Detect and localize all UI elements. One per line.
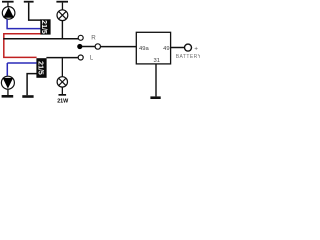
switch common pivot (filled dot) — [77, 44, 82, 49]
switch contact R (open circle) — [78, 35, 83, 40]
svg-text:R: R — [91, 34, 96, 41]
ground bar under relay — [150, 96, 160, 99]
wire stem from ground bar to L1 — [7, 3, 8, 7]
rear flasher lamp L4 (circle-X) — [57, 77, 67, 87]
svg-text:49: 49 — [163, 46, 169, 52]
battery terminal (open circle) — [185, 44, 192, 51]
svg-text:31: 31 — [154, 58, 160, 64]
flasher relay U1 — [136, 32, 170, 64]
svg-text:21/5: 21/5 — [40, 20, 47, 34]
connector terminal (open circle) — [95, 44, 100, 49]
blue wire from L1 down and right to box B1 — [6, 19, 40, 28]
wire from second ground bar down and right into top of box B1 — [29, 3, 41, 21]
wire from pivot to connector — [82, 46, 95, 48]
wire stem below L2 — [7, 89, 8, 95]
wire from L3 down to R feed line — [62, 20, 63, 39]
ground bar over indicator lamp L1 — [2, 1, 14, 3]
wire from relay 49 to battery terminal — [171, 47, 185, 49]
black wire (L feed) from box B2 to switch contact L — [46, 57, 78, 59]
black box B1 (front lamp unit 21/5W) — [40, 19, 50, 34]
ground bar (second, top) — [24, 1, 34, 3]
blue wire from lamp L2 up and right to box B2 — [7, 63, 36, 76]
wire from relay 31 down to ground — [155, 64, 156, 96]
svg-text:BATTERY: BATTERY — [176, 54, 200, 60]
black box B2 (rear lamp unit 21/5W) — [36, 58, 46, 78]
ground bar over lamp L3 — [56, 1, 68, 3]
indicator lamp L1 (arrow up) — [2, 7, 15, 20]
ground bar under B2 wire — [22, 95, 33, 98]
wire from L feed down to rear flasher lamp L4 — [62, 58, 63, 77]
front flasher lamp L3 (circle-X) — [57, 10, 68, 21]
switch contact L (open circle) — [78, 55, 83, 60]
black wire (R feed) from left edge under B1 to switch contact R — [3, 38, 78, 40]
wire stem below L4 — [62, 87, 63, 94]
wire from connector to flasher relay terminal 49a — [101, 46, 137, 48]
svg-text:49a: 49a — [139, 46, 149, 52]
wire stem from ground bar to L3 — [62, 3, 63, 11]
red wire from B1 left edge, down left side, to box B2 — [4, 34, 41, 58]
svg-text:21/5: 21/5 — [37, 61, 44, 75]
svg-text:21W: 21W — [57, 99, 69, 104]
ground bar under L4 — [59, 94, 67, 96]
svg-text:+: + — [194, 45, 198, 52]
ground bar under L2 — [2, 95, 14, 98]
svg-text:L: L — [90, 55, 94, 62]
indicator lamp L2 (arrow down) — [1, 76, 14, 89]
black ground wire from B2 left side down to ground — [27, 74, 36, 96]
